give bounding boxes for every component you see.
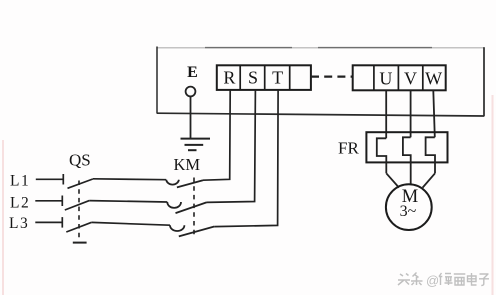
QS pole 2 (35, 196, 89, 211)
wire V drop (410, 90, 412, 137)
FR heater W (426, 137, 435, 173)
QS pole 1 (36, 174, 93, 188)
svg-text:T: T (272, 68, 283, 88)
wire QS3-KM3 (91, 222, 170, 225)
KM pole 3 contact arc (170, 225, 184, 231)
FR heater U (377, 138, 387, 173)
wire U drop (385, 90, 387, 138)
panel top bus wire (157, 47, 484, 49)
svg-text:R: R (223, 68, 235, 88)
wire KM2-S riser (207, 90, 256, 202)
ground symbol (181, 139, 211, 151)
wire E drop (190, 97, 192, 139)
watermark pseudo-glyphs (398, 273, 423, 286)
svg-text:L2: L2 (10, 194, 30, 211)
panel left wire (156, 47, 158, 114)
wire KM1-R riser (203, 90, 230, 180)
relay FR box (366, 132, 447, 162)
svg-text:FR: FR (338, 139, 359, 158)
svg-text:S: S (248, 68, 258, 88)
svg-text:KM: KM (174, 155, 201, 174)
earth terminal circle (186, 87, 196, 97)
wire U to motor (386, 173, 399, 187)
svg-text:QS: QS (69, 151, 91, 170)
svg-text:E: E (187, 64, 198, 81)
terminal block R S T (217, 65, 311, 90)
svg-text:L3: L3 (9, 215, 29, 232)
panel right wire (483, 47, 485, 116)
QS pole 3 (35, 217, 91, 232)
QS linkage dashed (73, 181, 87, 243)
wire QS1-KM1 (93, 178, 166, 181)
svg-text:3~: 3~ (400, 203, 417, 220)
PE bus wire (157, 113, 484, 116)
KM linkage dashed (193, 178, 195, 239)
svg-text:@: @ (426, 273, 439, 288)
wire QS2-KM2 (89, 201, 167, 202)
KM pole 2 blade (176, 202, 207, 213)
motor M circle (386, 184, 432, 230)
wire KM3-T riser (214, 90, 278, 227)
svg-text:W: W (425, 68, 442, 88)
svg-text:U: U (379, 68, 392, 88)
scan edge tint right (492, 95, 494, 295)
wire W to motor (423, 173, 435, 187)
KM pole 1 blade (177, 180, 203, 187)
svg-text:V: V (404, 68, 417, 88)
FR heater V (403, 137, 411, 184)
dashed link wire RST-UVW (311, 75, 353, 77)
svg-text:L1: L1 (10, 172, 30, 189)
wire W drop (433, 90, 435, 137)
scan edge tint left (2, 140, 4, 295)
KM pole 3 blade (179, 227, 215, 237)
KM pole 1 contact arc (166, 180, 179, 185)
KM pole 2 contact arc (167, 202, 181, 208)
terminal block U V W (353, 65, 446, 90)
